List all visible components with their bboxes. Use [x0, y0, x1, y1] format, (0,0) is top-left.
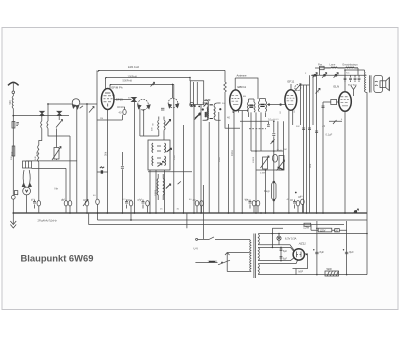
- svg-text:5000: 5000: [219, 156, 221, 162]
- svg-text:8µF: 8µF: [283, 251, 288, 253]
- svg-text:2Fig4b4y7j1sHz: 2Fig4b4y7j1sHz: [38, 219, 58, 223]
- svg-text:EBF11: EBF11: [238, 85, 247, 89]
- svg-text:Antenne: Antenne: [237, 74, 248, 78]
- svg-text:Regl.: Regl.: [264, 189, 270, 193]
- svg-text:8µF: 8µF: [349, 250, 354, 254]
- svg-text:120/240: 120/240: [208, 260, 218, 264]
- svg-text:6,3V 0,3A: 6,3V 0,3A: [285, 237, 297, 241]
- svg-text:500: 500: [9, 100, 12, 105]
- svg-text:Ne: Ne: [55, 187, 59, 191]
- svg-text:8µF: 8µF: [320, 250, 325, 254]
- svg-text:0,5M: 0,5M: [260, 173, 265, 175]
- svg-text:0,1µF: 0,1µF: [326, 133, 333, 137]
- svg-text:1000: 1000: [174, 154, 176, 160]
- svg-text:100Feld: 100Feld: [128, 74, 138, 78]
- svg-text:Tief Ton: Tief Ton: [348, 83, 358, 87]
- svg-text:302: 302: [308, 163, 312, 168]
- svg-text:EF/M Ph: EF/M Ph: [112, 85, 123, 89]
- svg-text:Ersatzlautspr.: Ersatzlautspr.: [343, 62, 359, 66]
- svg-text:640: 640: [35, 151, 39, 156]
- svg-text:EF11: EF11: [288, 79, 295, 83]
- svg-text:EM4 Feld: EM4 Feld: [128, 65, 140, 69]
- svg-text:500: 500: [10, 151, 14, 156]
- svg-text:4(): 4(): [83, 198, 86, 202]
- svg-text:27µA: 27µA: [277, 149, 283, 152]
- svg-text:Blaupunkt 6W69: Blaupunkt 6W69: [21, 253, 94, 264]
- svg-text:5kW: 5kW: [327, 267, 333, 271]
- svg-text:40/101: 40/101: [117, 105, 125, 109]
- svg-text:30k: 30k: [104, 151, 108, 156]
- svg-text:EF13: EF13: [116, 98, 123, 102]
- svg-text:1,2W: 1,2W: [303, 227, 309, 230]
- svg-text:10000: 10000: [155, 189, 157, 196]
- svg-text:110A: 110A: [230, 150, 234, 156]
- svg-text:125V: 125V: [320, 229, 326, 232]
- svg-text:2M: 2M: [100, 118, 103, 120]
- svg-text:500Feld: 500Feld: [123, 78, 133, 82]
- svg-text:AZ11: AZ11: [298, 242, 306, 246]
- svg-text:3016: 3016: [206, 111, 208, 117]
- svg-text:10000: 10000: [253, 156, 255, 163]
- svg-text:U-V: U-V: [194, 247, 199, 251]
- svg-text:1M: 1M: [284, 149, 287, 151]
- svg-text:8µF: 8µF: [283, 258, 288, 260]
- svg-text:Pre: Pre: [318, 62, 323, 66]
- svg-text:M.P: M.P: [299, 270, 304, 274]
- svg-text:ELN: ELN: [334, 84, 340, 88]
- svg-text:3-30: 3-30: [206, 100, 211, 102]
- svg-text:Lane: Lane: [330, 62, 336, 66]
